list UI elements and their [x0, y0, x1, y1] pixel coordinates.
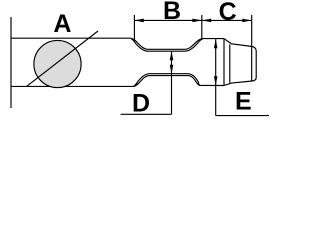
svg-text:A: A — [53, 10, 71, 38]
svg-text:D: D — [132, 90, 150, 118]
svg-text:B: B — [163, 0, 181, 25]
svg-text:E: E — [235, 87, 252, 115]
svg-text:C: C — [219, 0, 237, 26]
